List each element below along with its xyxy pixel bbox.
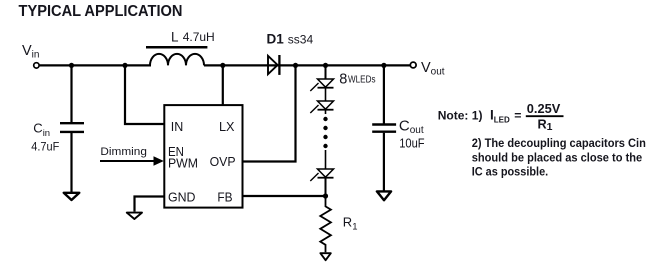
svg-text:should be placed as close to t: should be placed as close to the — [472, 150, 643, 164]
ground at GND pin — [127, 213, 142, 219]
svg-text:R1: R1 — [538, 117, 553, 133]
ground below R1 — [320, 253, 330, 260]
junction IN tap — [122, 63, 127, 68]
svg-text:Vout: Vout — [421, 60, 445, 78]
svg-text:GND: GND — [168, 190, 196, 205]
svg-text:R1: R1 — [343, 215, 358, 233]
svg-text:ILED=: ILED= — [490, 107, 521, 124]
junction Cout tap — [381, 63, 386, 68]
LED D2 — [310, 79, 333, 91]
wire dots to LED4 — [325, 150, 327, 169]
svg-text:TYPICAL APPLICATION: TYPICAL APPLICATION — [19, 3, 183, 20]
wire LED2 to dots — [325, 110, 327, 114]
LED D4 — [310, 169, 333, 181]
svg-text:LX: LX — [219, 119, 235, 134]
ground below Cin — [64, 193, 80, 200]
svg-text:Note: 1): Note: 1) — [438, 108, 483, 122]
wire FB branch — [243, 195, 326, 197]
svg-text:IN: IN — [171, 119, 184, 134]
capacitor Cout — [383, 65, 385, 123]
IC U1 box — [164, 105, 242, 208]
capacitor Cin — [70, 65, 72, 122]
svg-text:PWM: PWM — [168, 156, 198, 171]
svg-text:OVP: OVP — [210, 154, 236, 169]
wire LED1-LED2 — [325, 88, 327, 101]
wire OVP branch — [243, 65, 296, 161]
wire IN branch — [125, 65, 164, 124]
svg-text:IC as possible.: IC as possible. — [472, 165, 549, 179]
junction LX tap — [220, 63, 225, 68]
formula bar — [526, 115, 564, 117]
svg-text:WLEDs: WLEDs — [348, 74, 376, 85]
wire LED string top — [325, 65, 327, 79]
svg-text:FB: FB — [217, 190, 232, 205]
svg-text:0.25V: 0.25V — [527, 102, 561, 116]
resistor R1 — [320, 196, 331, 252]
svg-text:Dimming: Dimming — [100, 146, 146, 158]
svg-text:Cout: Cout — [399, 117, 424, 136]
diode D1 — [268, 56, 278, 74]
junction OVP tap — [293, 63, 298, 68]
wire LX vertical — [222, 65, 224, 105]
dots ellipsis — [323, 117, 327, 121]
ground below Cout — [377, 191, 391, 200]
node Vout terminal — [410, 62, 416, 68]
svg-text:ss34: ss34 — [288, 32, 314, 46]
svg-text:4.7uH: 4.7uH — [183, 30, 215, 44]
svg-text:10uF: 10uF — [399, 136, 425, 151]
wire Dimming arrow — [100, 160, 155, 162]
wire Vin to inductor — [39, 64, 151, 66]
inductor L1 coil — [150, 54, 204, 65]
svg-text:8: 8 — [339, 71, 347, 87]
wire inductor to Vout — [204, 64, 410, 66]
LED D3 — [310, 101, 333, 113]
svg-text:D1: D1 — [267, 31, 285, 46]
svg-text:Cin: Cin — [33, 121, 50, 139]
wire GND branch — [135, 197, 165, 212]
junction Cin tap — [69, 63, 74, 68]
junction LED string tap — [323, 63, 328, 68]
svg-text:4.7uF: 4.7uF — [31, 140, 59, 154]
svg-text:L: L — [171, 30, 179, 45]
wire LED4 to FB node — [325, 178, 327, 196]
junction FB node — [323, 193, 328, 198]
node Vin terminal — [34, 63, 39, 68]
svg-text:Vin: Vin — [22, 43, 39, 61]
svg-text:2) The decoupling capacitors C: 2) The decoupling capacitors Cin — [472, 136, 646, 150]
inductor core bar — [146, 46, 207, 49]
